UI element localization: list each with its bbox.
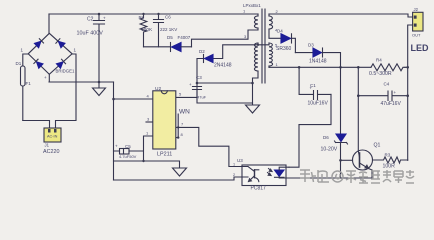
wire output row: [269, 66, 408, 68]
diode D4: [276, 29, 295, 53]
wire IC pin3 stub: [146, 121, 153, 123]
svg-text:0.5~300R: 0.5~300R: [369, 71, 392, 77]
svg-text:J1: J1: [45, 143, 50, 148]
core: [262, 9, 265, 83]
optocoupler U3 PC817: [233, 158, 289, 192]
svg-text:100R: 100R: [383, 164, 396, 170]
ground aux: [246, 105, 260, 113]
ground IC: [173, 168, 187, 176]
wire IC ground row: [114, 161, 180, 168]
wire drive to opto pin1: [178, 127, 240, 166]
diode bridge SE: [56, 59, 65, 68]
winding secondary 2: [269, 43, 273, 66]
svg-text:PC817: PC817: [251, 186, 267, 192]
wire top DC rail: [49, 13, 258, 15]
svg-text:D5: D5: [167, 35, 173, 40]
wire AC line left: [23, 121, 50, 129]
transistor Q1: [341, 67, 381, 178]
winding secondary: [269, 16, 273, 29]
capacitor C6 snubber: [154, 14, 178, 47]
svg-text:R1: R1: [139, 15, 145, 20]
diode D6 zener: [321, 67, 348, 178]
wire zener to Q1 base: [341, 159, 353, 161]
winding primary: [254, 16, 258, 28]
resistor R4: [369, 58, 405, 78]
svg-text:AC-IN: AC-IN: [47, 135, 58, 139]
svg-text:2: 2: [233, 173, 235, 177]
node top rail / C2 junction: [98, 13, 101, 16]
wire snubber bottom row: [144, 46, 171, 48]
wire right output rail: [408, 25, 413, 160]
wire bridge top lead: [48, 14, 50, 33]
wire secondary2 bottom lead: [268, 66, 270, 67]
wire VCC to D2 row: [197, 45, 269, 83]
wire primary bottom return: [192, 28, 259, 47]
svg-text:U2: U2: [155, 86, 161, 92]
diode bridge SW: [34, 59, 43, 68]
resistor R1 snubber: [139, 14, 154, 47]
svg-text:BRIDGE1: BRIDGE1: [56, 69, 75, 74]
svg-text:C6: C6: [165, 15, 171, 20]
svg-text:LP211: LP211: [157, 152, 172, 158]
fuse F1: [16, 54, 32, 121]
svg-text:1N4148: 1N4148: [309, 59, 327, 65]
capacitor C2: [77, 14, 107, 82]
diode bridge NW: [34, 39, 43, 48]
wire AC line right: [56, 54, 77, 128]
svg-text:4.7uF50V: 4.7uF50V: [119, 154, 137, 159]
svg-text:C4: C4: [384, 82, 390, 87]
svg-text:+: +: [189, 82, 192, 87]
wire secondary2 top lead: [268, 43, 270, 45]
node VCC: [196, 82, 199, 85]
wire IC pin4: [114, 98, 153, 100]
svg-text:SR360: SR360: [276, 46, 292, 52]
wire aux bottom to ground: [253, 71, 259, 105]
svg-text:+: +: [394, 90, 397, 95]
capacitor C5: [115, 144, 137, 160]
svg-text:D6: D6: [323, 135, 329, 140]
node snubber top C6: [157, 13, 159, 15]
svg-text:C5: C5: [125, 144, 131, 149]
wire secondary top rail: [269, 14, 413, 17]
svg-text:R3: R3: [385, 153, 391, 158]
svg-text:D3: D3: [308, 43, 314, 48]
wire IC pins 7 8 tie: [176, 114, 178, 138]
wire IC pin1 to C5: [114, 136, 153, 161]
svg-text:OUT: OUT: [412, 33, 421, 38]
diode D2: [199, 49, 232, 69]
opto LED: [275, 170, 285, 177]
wire secondary bottom to D4: [269, 29, 281, 38]
svg-text:10-20V: 10-20V: [321, 147, 338, 153]
svg-text:AC220: AC220: [43, 149, 59, 155]
diode D5: [167, 35, 192, 52]
node rail pin4: [112, 98, 115, 101]
wire primary top lead: [257, 14, 259, 16]
svg-text:+: +: [115, 144, 118, 149]
IC U2: [146, 86, 190, 158]
svg-text:LPxxBx1: LPxxBx1: [243, 3, 261, 8]
svg-text:D4: D4: [277, 29, 283, 34]
resistor R3: [373, 153, 408, 170]
svg-text:222 1KV: 222 1KV: [160, 27, 177, 32]
wire VCC row to aux ground stem: [197, 82, 253, 84]
connector J2 LED output: [412, 7, 423, 38]
svg-text:J2: J2: [414, 7, 419, 12]
node ground junction: [98, 81, 101, 84]
wire opto LED cathode row: [289, 177, 341, 179]
bridge rectifier BRIDGE1: [21, 33, 77, 80]
wire feedback to opto LED anode: [289, 94, 331, 167]
wire IC pin5 VCC: [176, 83, 197, 97]
wire secondary top lead: [268, 14, 270, 16]
watermark 知乎 @张飞实战电子: [300, 170, 414, 183]
svg-text:C1: C1: [310, 83, 316, 88]
svg-text:F4007: F4007: [178, 35, 191, 40]
svg-text:C3: C3: [196, 75, 202, 80]
svg-text:D2: D2: [199, 49, 205, 54]
wire IC left rail: [113, 82, 115, 180]
node snubber top R1: [142, 13, 144, 15]
connector J1 AC input: [43, 128, 61, 155]
capacitor C3: [189, 75, 253, 103]
diode D3: [295, 43, 340, 68]
svg-text:D1: D1: [16, 61, 22, 66]
svg-text:10uF16V: 10uF16V: [308, 101, 329, 107]
svg-text:U3: U3: [237, 158, 243, 163]
svg-text:LED: LED: [411, 43, 430, 53]
svg-text:10uF 400V: 10uF 400V: [77, 31, 104, 37]
capacitor C4: [358, 82, 407, 108]
svg-text:47uF: 47uF: [197, 95, 207, 100]
svg-text:47uF16V: 47uF16V: [381, 101, 402, 107]
wire aux top lead: [257, 43, 259, 45]
svg-text:100K: 100K: [141, 27, 153, 33]
svg-text:1: 1: [233, 163, 235, 167]
svg-text:C2: C2: [87, 17, 94, 23]
transformer T1: [192, 3, 282, 113]
svg-text:WN: WN: [179, 109, 190, 116]
svg-text:Q1: Q1: [374, 143, 381, 149]
svg-text:+: +: [103, 16, 106, 21]
node C5 ground: [142, 160, 144, 162]
opto light arrows: [268, 169, 273, 176]
capacitor C1: [299, 67, 331, 106]
diode bridge NE: [56, 39, 65, 48]
svg-text:R4: R4: [376, 58, 382, 63]
svg-text:F1: F1: [26, 81, 32, 86]
ground primary: [93, 82, 106, 96]
wire bottom return to opto: [114, 177, 241, 180]
svg-text:+: +: [44, 75, 47, 80]
svg-text:2N4148: 2N4148: [214, 63, 232, 69]
winding aux: [254, 43, 258, 71]
wire bridge bottom to ground node: [49, 74, 114, 82]
